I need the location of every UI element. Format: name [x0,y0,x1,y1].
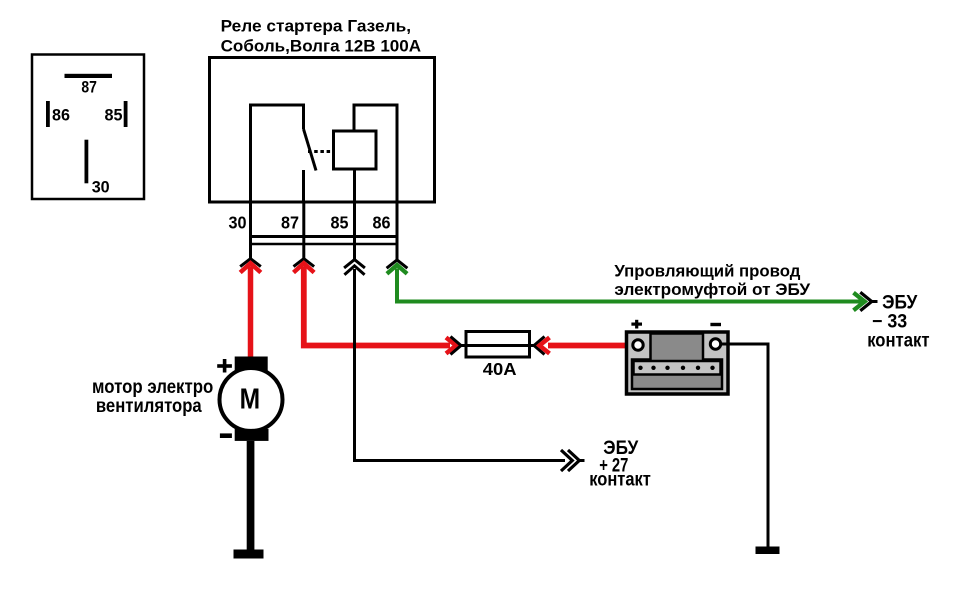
fuse right chevron [534,337,545,355]
pin 30 lead [249,202,252,259]
wire battery minus to ground [721,344,768,549]
pin dot 4 [681,366,685,370]
fuse element wire [461,344,537,347]
svg-text:40А: 40А [483,359,517,379]
svg-text:− 33: − 33 [872,311,907,332]
motor - label [220,433,232,438]
green arrowhead at ECU33 [854,293,865,311]
svg-text:вентилятора: вентилятора [96,395,202,417]
green arrowhead into pin86 [387,265,407,274]
battery dark T block [632,334,722,390]
pin dot 5 [696,366,700,370]
motor top cap [235,357,268,371]
svg-text:Реле стартера Газель,: Реле стартера Газель, [221,16,411,35]
wire pin30 internal U [251,105,304,202]
motor body [220,368,283,431]
red arrowhead into fuse right [540,338,550,354]
battery connector block body [627,332,729,394]
ECU27 chevron 2 [568,450,579,471]
pin dot 1 [638,366,642,370]
wire coil bottom to pin85 [353,169,356,202]
svg-text:86: 86 [373,212,391,232]
motor + label horizontal [217,364,232,368]
svg-text:Упровляющий провод: Упровляющий провод [614,262,800,281]
svg-text:30: 30 [229,212,247,232]
pin bar 87 [65,74,113,78]
label battery + vertical [635,320,638,329]
arrowhead pin85 male [344,266,364,275]
motor bottom cap [235,429,269,441]
motor + label vertical [223,359,227,373]
ground bar right [756,547,780,555]
red arrowhead into fuse left [446,338,456,354]
motor ground wire [247,441,255,551]
relay pinout box [32,55,144,200]
battery pin strip [634,361,721,375]
wire coil top to pin86 [354,105,397,202]
svg-text:87: 87 [281,212,299,232]
fuse F1 body [466,332,530,358]
svg-text:87: 87 [81,77,97,96]
pin dot 2 [651,366,655,370]
switch blade [304,129,317,171]
pin bar 30 [85,140,89,184]
green wire pin86 to ECU [397,269,863,302]
socket chevron pin30 [240,259,261,267]
battery - terminal [710,339,720,349]
label battery - [710,323,721,326]
wire pin87 stub [302,170,305,202]
red wire pin30 to motor [248,267,254,358]
relay U1 box [210,58,435,203]
ECU33 chevron [860,292,871,311]
dashed actuator link [308,150,334,153]
svg-text:электромуфтой от ЭБУ: электромуфтой от ЭБУ [614,280,810,299]
socket chevron pin85 [344,260,365,268]
svg-text:Соболь,Волга 12В 100А: Соболь,Волга 12В 100А [221,36,422,55]
pin 86 lead [396,202,399,260]
battery + terminal [633,340,643,350]
ground bar motor [234,550,264,559]
socket chevron pin87 [294,259,315,267]
socket chevron pin86 [387,260,408,268]
fuse left chevron [451,337,462,355]
red arrowhead into pin87 [294,263,315,272]
ECU33 tail [872,300,878,303]
coil box [334,131,377,169]
svg-text:86: 86 [52,106,70,125]
red arrowhead into pin30 [240,263,261,272]
pin 87 lead [302,202,305,259]
svg-text:85: 85 [105,106,123,125]
svg-text:30: 30 [92,177,110,196]
pin 85 lead [353,202,356,260]
red wire fuse to battery [548,343,637,349]
label battery + horizontal [631,323,642,326]
red wire pin87 to fuse [304,267,450,346]
pin bar 86 [46,101,50,127]
svg-text:ЭБУ: ЭБУ [882,292,917,313]
wire pin85 to ECU [355,269,566,461]
svg-text:контакт: контакт [867,331,929,352]
connector strip line 1 [251,235,398,238]
connector strip line 2 [251,243,398,246]
ECU27 chevron 1 [561,450,572,471]
svg-text:М: М [240,384,261,416]
pin dot 3 [665,366,669,370]
svg-text:контакт: контакт [589,470,651,491]
svg-text:85: 85 [331,212,349,232]
pin dot 6 [710,366,714,370]
ECU27 tail [579,459,584,462]
pin bar 85 [124,101,128,127]
